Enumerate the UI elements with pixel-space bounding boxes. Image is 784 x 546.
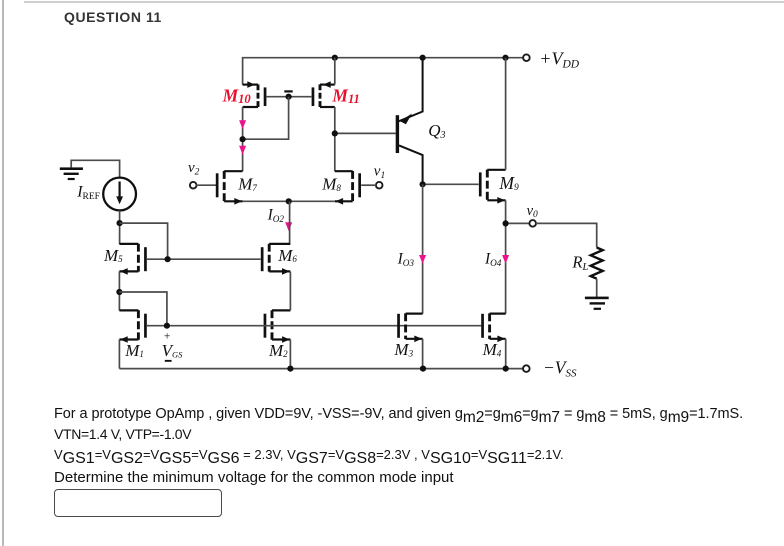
label minus mark above M10/M11 gate node (284, 90, 292, 92)
transistor M1 source arrow (120, 336, 128, 343)
svg-text:RL: RL (571, 253, 588, 274)
transistor M2 channel (dashed) (271, 310, 274, 340)
transistor M9 source stub (487, 199, 505, 201)
ground below RL (585, 297, 609, 300)
wire common gate line M1-M2-M3-M4 (147, 325, 481, 327)
transistor M2 drain stub (272, 309, 290, 311)
transistor M11 gate bar (312, 87, 315, 106)
wire M5 gate to M6 gate (147, 258, 261, 260)
svg-text:M7: M7 (237, 175, 257, 194)
transistor M1 channel (dashed) (137, 310, 140, 340)
svg-text:M8: M8 (321, 175, 341, 194)
node v2 input terminal (open terminal) (190, 182, 197, 189)
transistor M10 channel (dashed) (257, 84, 260, 107)
svg-text:IO4: IO4 (484, 251, 502, 268)
node M5/M6 gate node (junction dot) (165, 256, 171, 262)
wire M7/M8 common source (243, 200, 335, 202)
svg-text:M6: M6 (277, 246, 297, 265)
transistor Q3 collector (399, 145, 423, 184)
wire M1 source to VSS rail (118, 340, 120, 369)
current arrow I into M10 drain (upper) (239, 120, 246, 129)
wire M2 source to VSS rail (289, 340, 291, 369)
wire IREF node to M5/M6 gates (120, 223, 168, 259)
transistor M9 drain stub (487, 169, 505, 171)
node tail node (junction dot) (286, 198, 292, 204)
wire Q3 collector to M9 gate (423, 183, 479, 185)
transistor M6 source arrow (282, 268, 290, 275)
current source IREF arrow (118, 182, 120, 199)
svg-text:M11: M11 (331, 85, 359, 106)
transistor M4 source stub (490, 338, 506, 340)
svg-text:−VSS: −VSS (543, 358, 577, 380)
transistor M9 channel (dashed) (486, 170, 489, 201)
node VDD-M11 (junction dot) (332, 55, 338, 61)
wire v2 terminal to M7 gate (196, 184, 216, 186)
current arrow IO4 (502, 255, 509, 264)
current arrow I into M7 drain (lower) (239, 146, 246, 155)
wire Q3 collector down to M3 drain (IO3 branch) (422, 184, 424, 313)
node M10 drain / gate tie (junction dot) (240, 136, 246, 142)
wire M3 source to VSS rail (422, 339, 424, 369)
transistor M7 drain stub (224, 170, 242, 172)
svg-text:M3: M3 (393, 340, 413, 359)
transistor M6 source stub (269, 270, 290, 272)
svg-text:IO3: IO3 (397, 251, 415, 268)
transistor M10 source stub (243, 106, 258, 108)
wire M2 drain up to M6 source (289, 271, 291, 310)
wire v0 to RL (536, 223, 597, 247)
node VSS-M2 (junction dot) (287, 366, 293, 372)
svg-text:M4: M4 (482, 340, 502, 359)
transistor M7 gate bar (216, 173, 219, 197)
svg-text:v0: v0 (527, 203, 538, 220)
transistor M1 drain stub (119, 309, 138, 311)
transistor Q3 base bar (396, 115, 399, 153)
transistor M5 source stub (119, 270, 138, 272)
transistor M3 source stub (406, 338, 423, 340)
transistor M2 source stub (272, 338, 290, 340)
transistor M3 drain stub (406, 313, 423, 315)
svg-text:+VDD: +VDD (539, 48, 579, 70)
svg-text:v2: v2 (188, 160, 200, 177)
wire VSS rail (119, 368, 523, 370)
current arrow IO2 (285, 222, 292, 231)
transistor M8 source arrow (335, 198, 343, 205)
wire M10 gate to M11 gate (266, 96, 311, 98)
node v1 input terminal (open terminal) (376, 182, 383, 189)
transistor M11 source arrow (323, 81, 331, 88)
wire M5 source to M1/M2 gate line (119, 292, 166, 326)
wire RL to ground (596, 279, 598, 298)
transistor M8 channel (dashed) (351, 171, 354, 202)
transistor M1 gate bar (144, 314, 147, 338)
wire VDD rail to M11 source (334, 58, 336, 85)
node output node (junction dot) (503, 220, 509, 226)
wire IREF to M5 drain (119, 210, 121, 244)
transistor M4 channel (dashed) (488, 313, 491, 339)
transistor M6 channel (dashed) (268, 244, 271, 272)
wire VDD rail from M10 drain to +VDD terminal (243, 58, 524, 85)
transistor M11 drain stub (320, 83, 335, 85)
node VDD-M9 (junction dot) (502, 55, 508, 61)
node +VDD terminal (open terminal) (523, 54, 530, 61)
transistor M1 source stub (119, 338, 138, 340)
transistor M8 drain stub (335, 170, 353, 172)
transistor M7 source stub (224, 200, 242, 202)
transistor M5 channel (dashed) (137, 244, 140, 272)
node M5 source node (junction dot) (116, 289, 122, 295)
wire M10/M11 gates down to M10 drain node (243, 97, 289, 140)
transistor M6 gate bar (261, 247, 264, 271)
wire M11 drain down to M8 drain (334, 107, 336, 171)
svg-text:M10: M10 (222, 85, 252, 106)
transistor M4 gate bar (481, 314, 484, 338)
transistor M10 drain stub (243, 83, 258, 85)
wire M9 source down to M4 drain (505, 200, 507, 313)
transistor M6 drain stub (269, 243, 290, 245)
svg-text:VGS: VGS (162, 341, 184, 360)
transistor M7 source arrow (234, 198, 242, 205)
transistor M3 source arrow (414, 336, 422, 343)
wire tail node down to M6 drain (289, 201, 291, 244)
transistor M10 gate bar (264, 87, 267, 106)
transistor M9 source arrow (497, 197, 505, 204)
svg-text:M5: M5 (103, 246, 123, 265)
wire M11 drain to Q3 base (335, 132, 396, 134)
transistor M4 drain stub (490, 313, 506, 315)
wire output node to v0 terminal (509, 222, 530, 224)
transistor M3 channel (dashed) (404, 313, 407, 339)
node IREF node (junction dot) (117, 220, 123, 226)
node VSS-M4 (junction dot) (503, 366, 509, 372)
node VSS-M3 (junction dot) (420, 366, 426, 372)
node M11 drain node (junction dot) (332, 130, 338, 136)
svg-text:M2: M2 (268, 341, 288, 360)
current arrow IO3 (419, 255, 426, 264)
svg-text:IREF: IREF (76, 184, 100, 202)
svg-text:M9: M9 (498, 173, 519, 193)
current source IREF circle (103, 178, 136, 211)
transistor M3 gate bar (397, 314, 400, 338)
wire ground to IREF top (71, 160, 119, 177)
node gate node M10/M11 (junction dot) (286, 94, 292, 100)
transistor M11 channel (dashed) (319, 84, 322, 107)
ground top-left (60, 167, 83, 170)
transistor M11 source stub (320, 106, 335, 108)
node -VSS terminal (open terminal) (523, 365, 530, 372)
svg-text:v1: v1 (374, 164, 385, 181)
wire M8 gate to v1 terminal (361, 184, 376, 186)
node gate line node (junction dot) (164, 323, 170, 329)
transistor Q3 emitter (to VDD) with arrow (399, 58, 423, 121)
node Q3 collector node (junction dot) (420, 181, 426, 187)
wire M5 source down to M1 drain (118, 271, 120, 310)
svg-text:Q3: Q3 (428, 121, 445, 141)
transistor M10 source arrow (247, 81, 255, 88)
node VDD-Q3 (junction dot) (420, 55, 426, 61)
transistor M2 gate bar (264, 314, 267, 338)
transistor M5 source arrow (120, 268, 128, 275)
transistor M2 source arrow (282, 336, 290, 343)
label - (VGS polarity) (165, 360, 172, 362)
wire M9 drain to VDD rail (505, 58, 507, 170)
transistor M7 channel (dashed) (223, 171, 226, 202)
transistor M4 source arrow (497, 336, 505, 343)
wire M10 drain down to M7 drain (242, 107, 244, 171)
wire M4 source to VSS rail (505, 339, 507, 369)
svg-text:M1: M1 (124, 341, 144, 360)
transistor M9 gate bar (479, 172, 482, 196)
svg-text:IO2: IO2 (267, 206, 285, 223)
transistor M8 gate bar (358, 173, 361, 197)
resistor RL (591, 248, 603, 279)
transistor M5 gate bar (144, 247, 147, 271)
node v0 output terminal (open terminal) (529, 220, 536, 227)
transistor M8 source stub (335, 200, 353, 202)
transistor M5 drain stub (119, 243, 138, 245)
